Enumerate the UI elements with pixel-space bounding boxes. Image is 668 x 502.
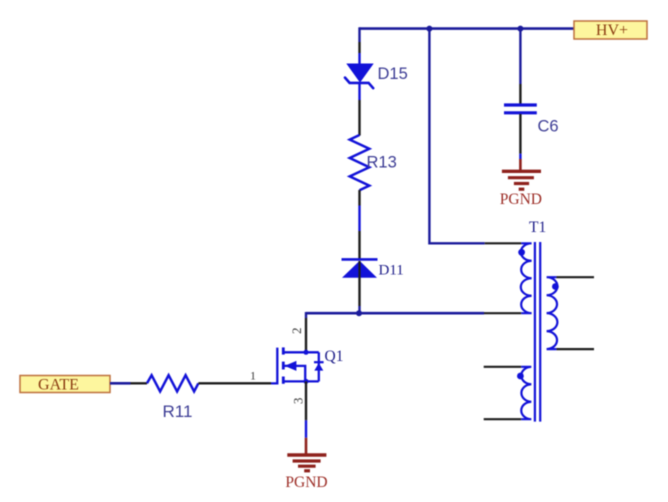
node phase dot secondary: [552, 283, 559, 290]
label C6: [538, 118, 559, 136]
ground PGND (Q1 source): [285, 455, 327, 491]
transformer T1 aux winding: [521, 367, 531, 419]
transistor Q1 (N-MOSFET): [271, 347, 324, 384]
wire top rail to T1 primary top: [429, 29, 484, 244]
wire R13 to D11: [358, 190, 360, 259]
wire R11 to Q1 gate: [198, 382, 271, 384]
transformer T1 secondary winding pins: [556, 277, 594, 349]
label D11: [379, 263, 404, 279]
svg-text:R11: R11: [163, 402, 193, 421]
svg-text:T1: T1: [529, 219, 546, 236]
wire top rail: [360, 27, 576, 30]
svg-text:D15: D15: [378, 65, 408, 83]
label Q1: [325, 348, 344, 365]
label R11: [163, 402, 193, 421]
label R13: [367, 153, 397, 171]
power port HV+: [574, 21, 647, 39]
wire C6 top: [519, 29, 521, 104]
svg-text:D11: D11: [379, 263, 404, 279]
svg-text:PGND: PGND: [500, 191, 542, 208]
transformer T1 primary winding: [521, 243, 532, 313]
svg-text:R13: R13: [367, 153, 397, 171]
svg-text:C6: C6: [538, 118, 559, 136]
node junction top-left (to T1 primary): [426, 26, 432, 32]
diode D15 (Schottky, cathode down): [345, 64, 374, 89]
svg-text:Q1: Q1: [325, 348, 344, 365]
svg-text:1: 1: [250, 369, 256, 383]
diode D11 (cathode up): [342, 259, 378, 278]
wire D15 to R13: [358, 83, 360, 136]
resistor R13: [350, 135, 370, 190]
node junction D11 bottom: [356, 310, 362, 316]
transformer T1 core: [535, 242, 540, 422]
node junction top-right (to C6): [517, 26, 523, 32]
transformer T1 secondary winding: [547, 277, 558, 349]
svg-text:PGND: PGND: [285, 474, 327, 491]
wire C6 bottom: [519, 114, 521, 171]
transformer T1 primary winding pins: [485, 242, 522, 244]
transformer T1 aux winding pins: [484, 367, 522, 419]
pin number 3 (Q1 source): [291, 398, 306, 405]
wire Q1 source down: [305, 381, 307, 454]
label D15: [378, 65, 408, 83]
resistor R11: [147, 375, 198, 391]
ground PGND (C6): [500, 171, 542, 208]
pin number 1 (Q1 gate): [250, 369, 256, 383]
capacitor C6: [504, 105, 537, 113]
wire D11 to node: [358, 278, 360, 313]
svg-text:3: 3: [291, 398, 306, 405]
label T1: [529, 219, 546, 236]
wire corner down to Q1 drain: [305, 312, 307, 352]
node phase dot aux: [517, 373, 524, 380]
svg-text:2: 2: [289, 327, 304, 334]
svg-text:GATE: GATE: [38, 376, 79, 393]
power port GATE: [20, 376, 110, 394]
pin number 2 (Q1 drain): [289, 327, 304, 334]
node phase dot primary: [518, 249, 525, 256]
wire GATE to R11: [110, 382, 147, 385]
wire drain rail (Q1 drain to T1 primary): [306, 312, 521, 315]
wire from top rail down to D15: [358, 27, 360, 65]
svg-text:HV+: HV+: [596, 22, 628, 39]
